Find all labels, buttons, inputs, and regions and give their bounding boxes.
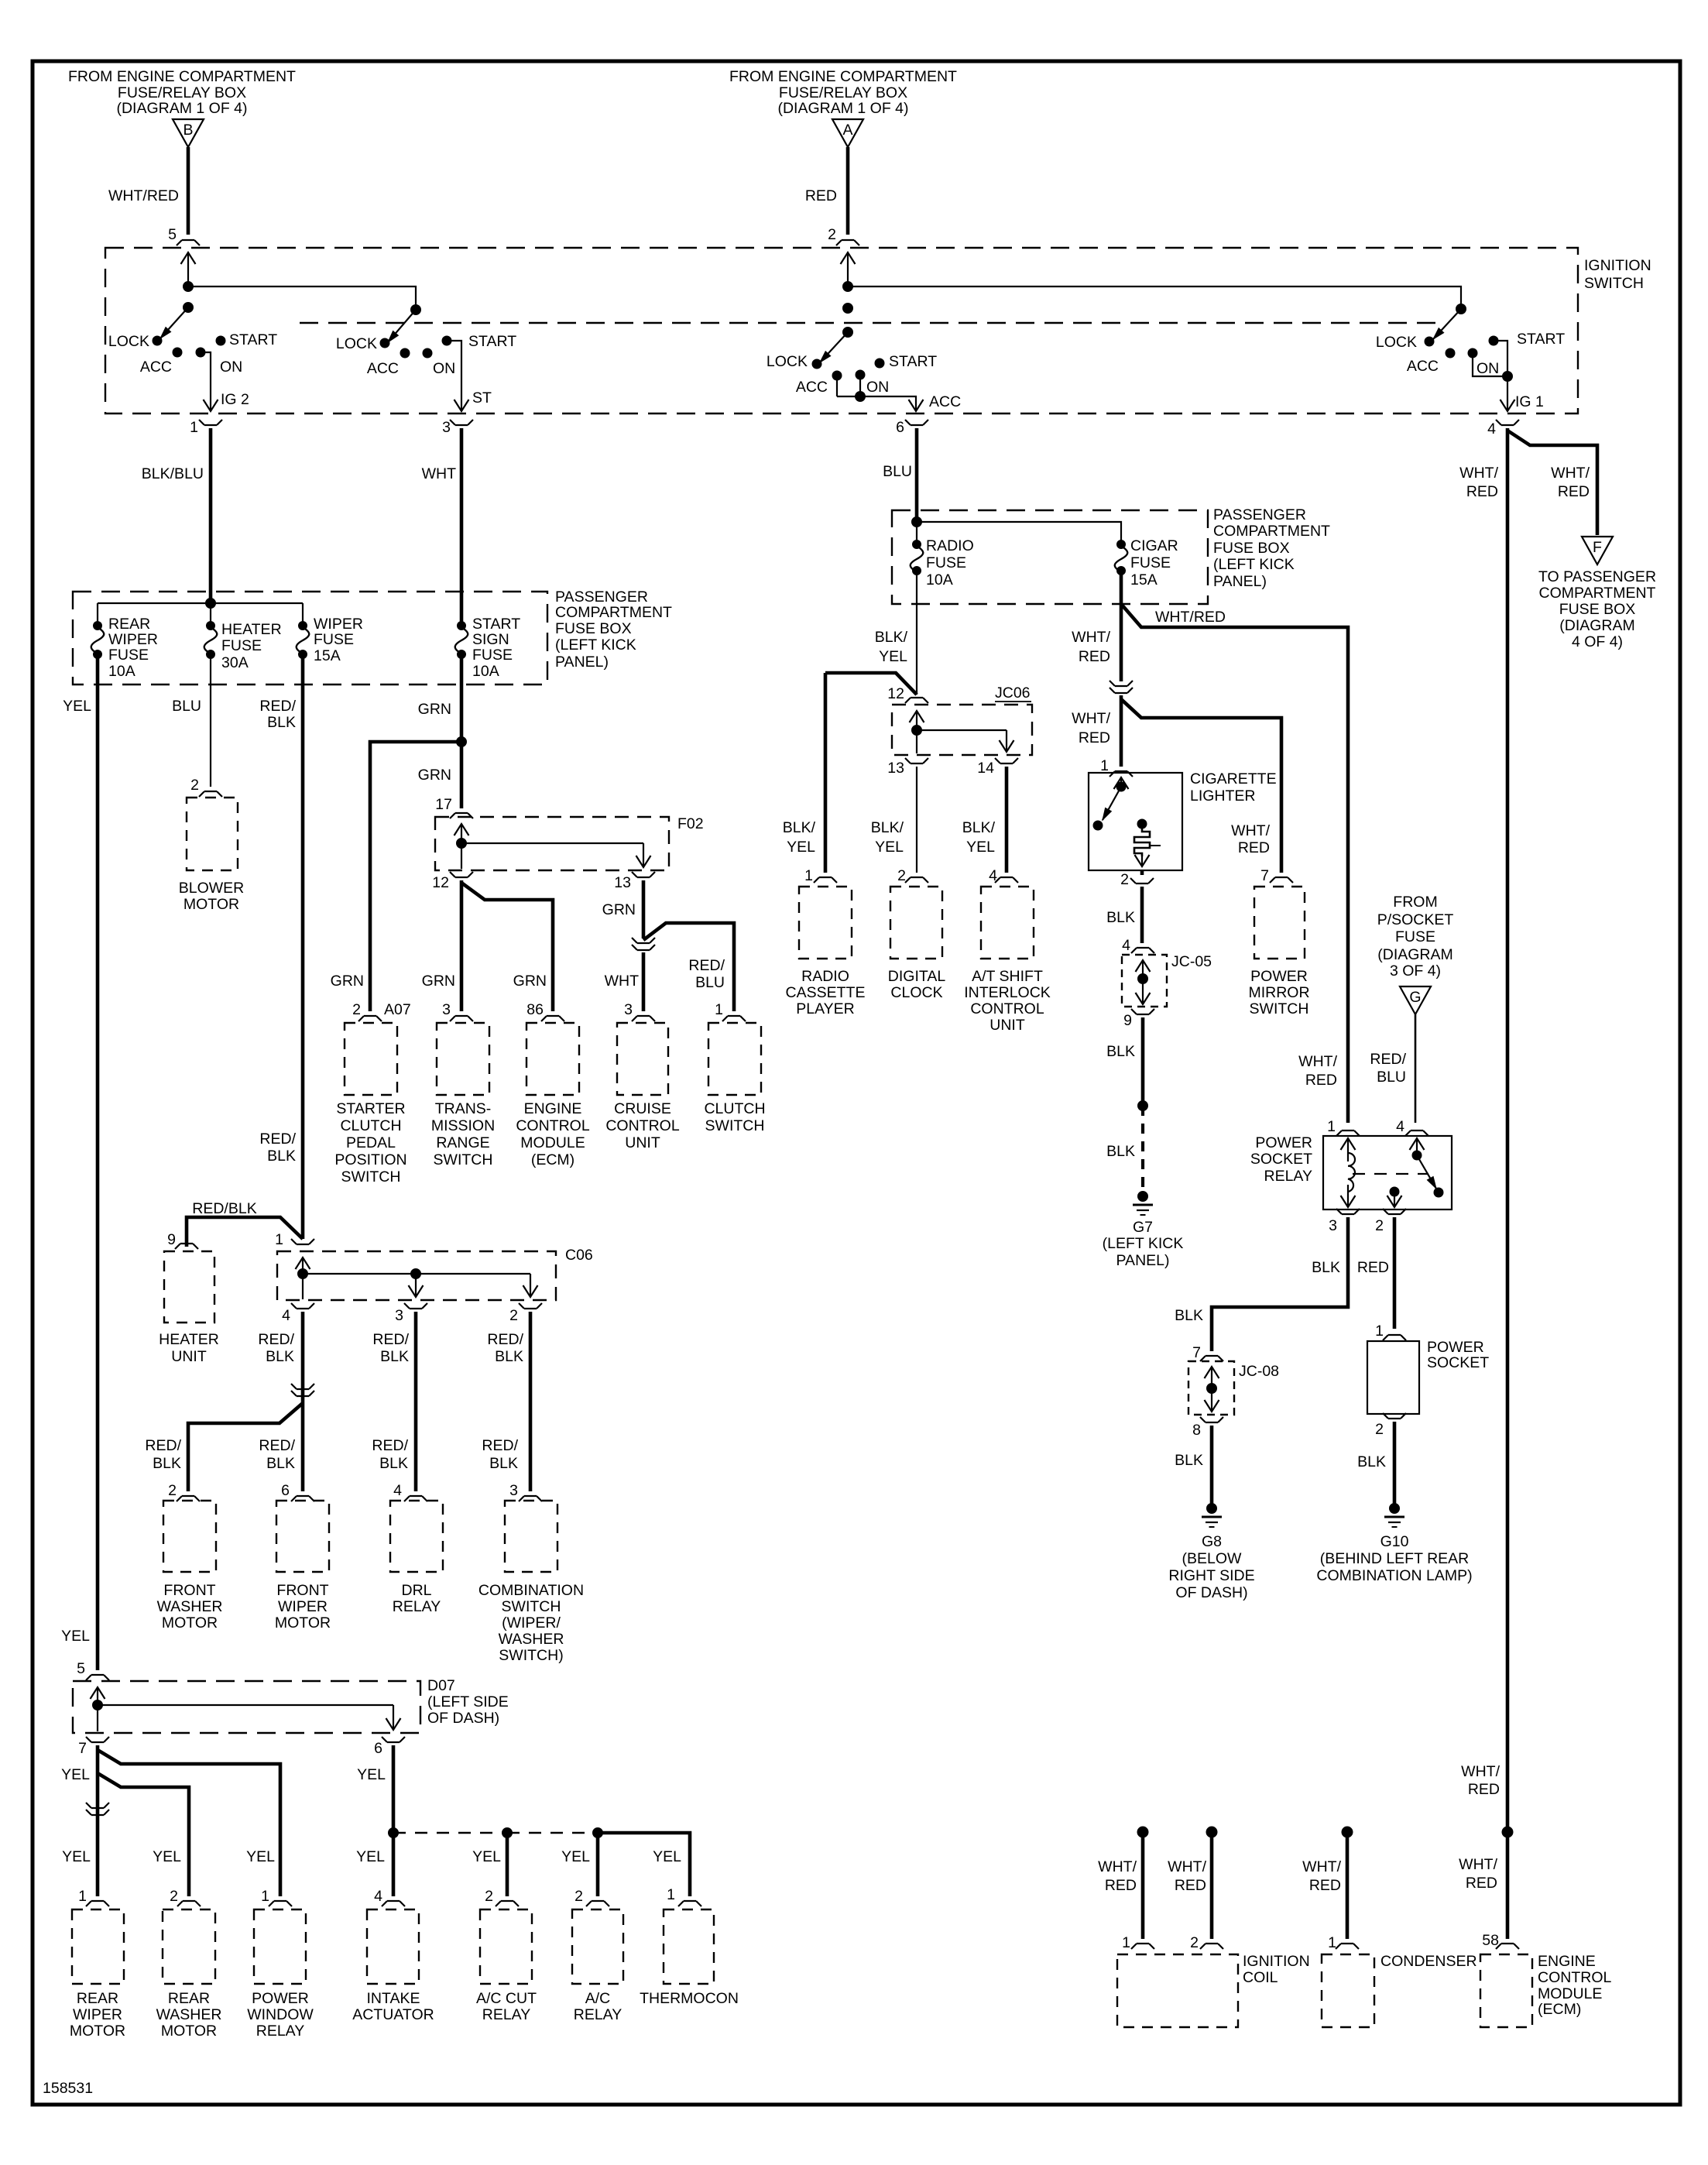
svg-text:(BELOW: (BELOW [1182,1550,1243,1567]
svg-text:RED/: RED/ [259,1131,296,1148]
svg-text:RED: RED [1305,1072,1337,1089]
svg-text:BLK: BLK [1175,1452,1203,1469]
svg-text:SWITCH): SWITCH) [499,1647,563,1664]
svg-text:ENGINE: ENGINE [1538,1953,1596,1970]
svg-text:YEL: YEL [357,1766,386,1783]
svg-text:3: 3 [624,1001,633,1018]
svg-text:BLK: BLK [379,1455,408,1472]
svg-text:POSITION: POSITION [334,1151,406,1168]
svg-text:4: 4 [1396,1118,1404,1135]
svg-text:9: 9 [167,1231,176,1248]
svg-text:RIGHT SIDE: RIGHT SIDE [1168,1567,1254,1584]
svg-text:MIRROR: MIRROR [1248,984,1309,1001]
svg-text:PANEL): PANEL) [1116,1252,1170,1269]
svg-text:RADIO: RADIO [926,537,974,554]
svg-text:STARTER: STARTER [336,1100,405,1117]
svg-text:LOCK: LOCK [108,333,149,350]
svg-text:RED/: RED/ [372,1437,408,1454]
svg-text:WIPER: WIPER [108,631,158,648]
svg-text:OF DASH): OF DASH) [427,1710,499,1727]
svg-text:(DIAGRAM: (DIAGRAM [1559,617,1635,634]
svg-text:13: 13 [887,760,904,777]
svg-text:RED/: RED/ [259,698,296,715]
svg-text:3 OF 4): 3 OF 4) [1390,962,1441,980]
svg-text:WHT/RED: WHT/RED [108,187,179,204]
svg-text:RED: RED [1079,729,1110,746]
svg-text:ON: ON [866,379,889,396]
svg-text:WHT/: WHT/ [1231,822,1270,839]
svg-text:1: 1 [190,419,198,436]
svg-text:FRONT: FRONT [276,1582,328,1599]
svg-text:FROM: FROM [1393,894,1437,911]
svg-text:WHT/: WHT/ [1459,465,1498,482]
svg-text:FUSE/RELAY BOX: FUSE/RELAY BOX [779,84,907,101]
svg-text:WASHER: WASHER [156,2006,222,2023]
svg-text:LOCK: LOCK [767,353,808,370]
svg-text:P/SOCKET: P/SOCKET [1377,911,1454,928]
svg-text:UNIT: UNIT [989,1017,1025,1034]
svg-text:58: 58 [1482,1932,1499,1949]
svg-text:LIGHTER: LIGHTER [1190,787,1256,805]
svg-text:14: 14 [977,760,994,777]
svg-text:2: 2 [1375,1421,1384,1438]
svg-text:13: 13 [614,874,631,891]
svg-text:SWITCH: SWITCH [705,1117,765,1134]
svg-text:BLK: BLK [1106,1143,1135,1160]
svg-text:G8: G8 [1202,1533,1222,1550]
svg-text:FUSE: FUSE [926,554,966,571]
svg-text:1: 1 [275,1231,283,1248]
svg-text:IGNITION: IGNITION [1243,1953,1310,1970]
svg-text:5: 5 [77,1660,85,1677]
svg-text:FUSE BOX: FUSE BOX [555,620,632,637]
svg-text:UNIT: UNIT [171,1348,207,1365]
svg-text:BLK/: BLK/ [875,629,908,646]
svg-text:FUSE: FUSE [221,637,262,654]
svg-text:YEL: YEL [63,698,91,715]
svg-text:A/C: A/C [585,1990,611,2007]
svg-text:CRUISE: CRUISE [614,1100,671,1117]
svg-text:4: 4 [393,1482,402,1499]
svg-text:LOCK: LOCK [336,335,377,352]
svg-text:1: 1 [1328,1934,1336,1951]
svg-text:2: 2 [352,1001,361,1018]
svg-text:JC-05: JC-05 [1171,953,1212,970]
svg-text:POWER: POWER [1255,1134,1312,1151]
svg-text:WHT/: WHT/ [1298,1053,1337,1070]
svg-text:WHT/: WHT/ [1461,1763,1500,1780]
svg-text:JC06: JC06 [995,684,1031,702]
svg-text:10A: 10A [108,663,135,680]
svg-text:YEL: YEL [879,648,907,665]
svg-text:(ECM): (ECM) [1538,2001,1581,2018]
svg-text:ACC: ACC [929,393,961,410]
svg-text:MODULE: MODULE [1538,1985,1602,2002]
svg-text:BLK/: BLK/ [871,819,904,836]
svg-text:FRONT: FRONT [163,1582,215,1599]
svg-text:ACC: ACC [140,359,172,376]
svg-text:YEL: YEL [966,839,995,856]
svg-text:12: 12 [887,685,904,702]
svg-text:CONTROL: CONTROL [516,1117,589,1134]
svg-text:A/C CUT: A/C CUT [476,1990,537,2007]
svg-text:(LEFT KICK: (LEFT KICK [1103,1235,1184,1252]
svg-text:2: 2 [485,1888,493,1905]
svg-text:BLK: BLK [266,1455,295,1472]
svg-text:RELAY: RELAY [393,1598,441,1615]
svg-text:IG 2: IG 2 [221,391,249,408]
svg-text:SWITCH: SWITCH [1584,275,1644,292]
svg-text:9: 9 [1123,1012,1132,1029]
svg-text:REAR: REAR [108,616,150,633]
svg-text:3: 3 [509,1482,518,1499]
svg-text:1: 1 [1122,1934,1130,1951]
svg-text:RED/: RED/ [482,1437,518,1454]
svg-text:INTERLOCK: INTERLOCK [964,984,1051,1001]
svg-text:HEATER: HEATER [221,621,282,638]
svg-text:RED/: RED/ [258,1331,294,1348]
svg-text:BLK: BLK [1175,1307,1203,1324]
svg-text:LOCK: LOCK [1376,334,1417,351]
svg-text:G7: G7 [1133,1219,1153,1236]
svg-text:TRANS-: TRANS- [435,1100,492,1117]
svg-text:JC-08: JC-08 [1239,1363,1279,1380]
svg-text:GRN: GRN [513,973,547,990]
svg-text:TO PASSENGER: TO PASSENGER [1538,568,1656,585]
svg-text:10A: 10A [926,571,953,588]
svg-text:YEL: YEL [787,839,815,856]
svg-text:GRN: GRN [331,973,364,990]
svg-text:ACC: ACC [1407,358,1439,375]
svg-text:2: 2 [574,1888,583,1905]
svg-text:FUSE: FUSE [472,647,513,664]
svg-text:WIPER: WIPER [278,1598,328,1615]
svg-text:6: 6 [374,1740,382,1757]
svg-text:GRN: GRN [418,701,451,718]
svg-text:WHT/: WHT/ [1072,629,1110,646]
svg-text:FUSE/RELAY BOX: FUSE/RELAY BOX [118,84,246,101]
svg-text:BLK/BLU: BLK/BLU [142,465,204,482]
svg-text:BLU: BLU [1377,1069,1406,1086]
svg-text:RELAY: RELAY [256,2023,305,2040]
svg-text:MODULE: MODULE [520,1134,585,1151]
svg-text:MOTOR: MOTOR [162,1614,218,1631]
svg-text:OF DASH): OF DASH) [1175,1584,1247,1601]
svg-text:RED: RED [1238,839,1270,856]
svg-text:7: 7 [1192,1344,1201,1361]
svg-text:YEL: YEL [653,1848,681,1865]
svg-text:1: 1 [1100,757,1109,774]
svg-text:CASSETTE: CASSETTE [786,984,866,1001]
svg-text:RELAY: RELAY [1264,1168,1313,1185]
svg-text:BLK/: BLK/ [962,819,996,836]
svg-text:ON: ON [1476,360,1499,377]
svg-text:FUSE BOX: FUSE BOX [1213,540,1290,557]
svg-text:START: START [229,331,277,348]
svg-text:(DIAGRAM 1 OF 4): (DIAGRAM 1 OF 4) [116,100,247,117]
svg-text:2: 2 [1120,871,1129,888]
svg-text:C06: C06 [565,1247,593,1264]
svg-text:WHT/RED: WHT/RED [1155,609,1226,626]
svg-text:1: 1 [261,1888,269,1905]
svg-text:ON: ON [433,360,455,377]
svg-text:D07: D07 [427,1677,455,1694]
svg-text:POWER: POWER [252,1990,309,2007]
svg-text:WHT/: WHT/ [1459,1856,1497,1873]
svg-text:FROM ENGINE COMPARTMENT: FROM ENGINE COMPARTMENT [729,68,957,85]
svg-text:WASHER: WASHER [499,1631,564,1648]
svg-text:WASHER: WASHER [157,1598,223,1615]
svg-text:CIGARETTE: CIGARETTE [1190,770,1277,787]
svg-text:1: 1 [78,1888,87,1905]
svg-text:F: F [1593,539,1602,556]
svg-text:A: A [842,122,852,139]
svg-text:FUSE: FUSE [314,631,354,648]
svg-text:1: 1 [1375,1323,1384,1340]
svg-text:PANEL): PANEL) [555,654,609,671]
svg-text:PASSENGER: PASSENGER [555,588,648,606]
svg-text:ACTUATOR: ACTUATOR [352,2006,434,2023]
svg-text:PLAYER: PLAYER [796,1000,855,1017]
svg-text:RED/: RED/ [487,1331,523,1348]
svg-text:ACC: ACC [367,360,399,377]
svg-text:COMBINATION: COMBINATION [478,1582,584,1599]
svg-text:BLK: BLK [153,1455,181,1472]
svg-text:RED: RED [1357,1259,1389,1276]
svg-text:FUSE: FUSE [108,647,149,664]
svg-text:(LEFT KICK: (LEFT KICK [1213,556,1295,573]
svg-text:RED: RED [1175,1877,1206,1894]
svg-text:CONTROL: CONTROL [605,1117,679,1134]
svg-text:1: 1 [667,1886,675,1903]
svg-text:WIPER: WIPER [73,2006,122,2023]
svg-text:DIGITAL: DIGITAL [888,968,946,985]
svg-text:COMPARTMENT: COMPARTMENT [555,604,672,621]
svg-text:BLK: BLK [1357,1453,1386,1470]
svg-text:BLK: BLK [266,1348,294,1365]
svg-text:2: 2 [897,867,906,884]
svg-text:6: 6 [896,419,904,436]
svg-text:YEL: YEL [246,1848,275,1865]
svg-text:17: 17 [435,796,452,813]
svg-text:SOCKET: SOCKET [1427,1354,1489,1371]
svg-text:4: 4 [1122,937,1130,954]
svg-text:(WIPER/: (WIPER/ [502,1614,561,1631]
svg-text:ENGINE: ENGINE [524,1100,582,1117]
svg-text:SWITCH: SWITCH [1250,1000,1309,1017]
svg-text:1: 1 [715,1001,723,1018]
svg-text:(DIAGRAM 1 OF 4): (DIAGRAM 1 OF 4) [777,100,908,117]
svg-text:INTAKE: INTAKE [367,1990,420,2007]
svg-text:FUSE BOX: FUSE BOX [1559,601,1636,618]
svg-text:PASSENGER: PASSENGER [1213,506,1306,523]
svg-text:THERMOCON: THERMOCON [640,1990,739,2007]
svg-text:YEL: YEL [153,1848,181,1865]
svg-text:GRN: GRN [602,901,636,918]
svg-text:F02: F02 [677,815,704,832]
svg-text:COMBINATION LAMP): COMBINATION LAMP) [1316,1567,1472,1584]
svg-text:WIPER: WIPER [314,616,363,633]
svg-text:2: 2 [828,226,836,243]
svg-text:FUSE: FUSE [1130,554,1171,571]
svg-text:BLK/: BLK/ [783,819,816,836]
svg-text:A07: A07 [384,1001,411,1018]
svg-text:BLK: BLK [489,1455,518,1472]
svg-text:RANGE: RANGE [436,1134,489,1151]
svg-text:(LEFT SIDE: (LEFT SIDE [427,1693,509,1710]
svg-text:COIL: COIL [1243,1969,1278,1986]
svg-text:BLK: BLK [267,1148,296,1165]
svg-text:MOTOR: MOTOR [183,896,239,913]
svg-text:RED/: RED/ [688,957,725,974]
svg-text:HEATER: HEATER [159,1331,219,1348]
svg-text:REAR: REAR [77,1990,118,2007]
svg-text:CONDENSER: CONDENSER [1380,1953,1477,1970]
svg-text:BLK: BLK [1312,1259,1340,1276]
svg-text:12: 12 [432,874,449,891]
svg-text:RED/BLK: RED/BLK [192,1200,256,1217]
svg-text:2: 2 [1190,1934,1199,1951]
svg-text:MOTOR: MOTOR [275,1614,331,1631]
svg-text:30A: 30A [221,654,249,671]
svg-text:YEL: YEL [356,1848,385,1865]
svg-text:CLUTCH: CLUTCH [704,1100,765,1117]
svg-text:POWER: POWER [1427,1339,1484,1356]
svg-text:IG 1: IG 1 [1515,393,1544,410]
svg-text:WINDOW: WINDOW [247,2006,314,2023]
svg-text:YEL: YEL [561,1848,590,1865]
svg-text:2: 2 [1375,1217,1384,1234]
svg-text:BLK: BLK [495,1348,523,1365]
svg-text:3: 3 [395,1307,403,1324]
svg-text:2: 2 [168,1482,177,1499]
svg-text:RED/: RED/ [1370,1051,1406,1068]
svg-text:2: 2 [509,1307,518,1324]
svg-text:START: START [1517,331,1565,348]
svg-text:1: 1 [804,867,813,884]
svg-text:6: 6 [281,1482,290,1499]
svg-text:START: START [468,333,516,350]
svg-text:RED: RED [1309,1877,1341,1894]
svg-text:PANEL): PANEL) [1213,573,1267,590]
svg-text:WHT: WHT [605,973,639,990]
svg-text:BLU: BLU [883,463,912,480]
svg-text:3: 3 [442,419,451,436]
svg-text:(ECM): (ECM) [531,1151,574,1168]
svg-text:IGNITION: IGNITION [1584,257,1651,274]
svg-text:BLK: BLK [1106,909,1135,926]
svg-text:YEL: YEL [62,1848,91,1865]
svg-text:(BEHIND LEFT REAR: (BEHIND LEFT REAR [1320,1550,1470,1567]
svg-text:(DIAGRAM: (DIAGRAM [1377,946,1453,963]
svg-text:1: 1 [1327,1118,1336,1135]
svg-text:158531: 158531 [43,2080,93,2097]
svg-text:3: 3 [1329,1217,1337,1234]
svg-text:WHT: WHT [422,465,456,482]
svg-text:DRL: DRL [401,1582,431,1599]
svg-text:BLK: BLK [1106,1043,1135,1060]
svg-text:COMPARTMENT: COMPARTMENT [1213,523,1330,540]
svg-text:4: 4 [374,1888,382,1905]
svg-text:START: START [889,353,937,370]
svg-text:WHT/: WHT/ [1551,465,1590,482]
svg-text:RELAY: RELAY [482,2006,531,2023]
svg-text:RADIO: RADIO [801,968,849,985]
svg-text:SWITCH: SWITCH [341,1168,401,1185]
svg-text:(LEFT KICK: (LEFT KICK [555,636,636,654]
svg-text:4: 4 [1487,420,1496,437]
svg-text:FUSE: FUSE [1395,928,1435,945]
svg-text:A/T SHIFT: A/T SHIFT [972,968,1043,985]
svg-text:15A: 15A [314,647,341,664]
svg-text:10A: 10A [472,663,499,680]
svg-text:MISSION: MISSION [431,1117,495,1134]
svg-text:BLK: BLK [267,714,296,731]
svg-text:BLU: BLU [695,974,725,991]
svg-text:YEL: YEL [61,1628,90,1645]
svg-text:START: START [472,616,520,633]
svg-text:CONTROL: CONTROL [1538,1969,1611,1986]
svg-text:3: 3 [442,1001,451,1018]
svg-text:SOCKET: SOCKET [1250,1151,1312,1168]
svg-text:RED/: RED/ [259,1437,295,1454]
svg-text:RED: RED [1466,483,1498,500]
svg-text:UNIT: UNIT [625,1134,660,1151]
svg-text:ON: ON [220,359,242,376]
svg-text:YEL: YEL [61,1766,90,1783]
svg-text:WHT/: WHT/ [1072,710,1110,727]
svg-text:COMPARTMENT: COMPARTMENT [1539,585,1656,602]
svg-text:5: 5 [168,226,177,243]
svg-text:MOTOR: MOTOR [161,2023,217,2040]
svg-text:RELAY: RELAY [574,2006,622,2023]
svg-text:G: G [1409,989,1421,1006]
svg-text:BLOWER: BLOWER [179,880,245,897]
svg-text:2: 2 [170,1888,178,1905]
svg-text:B: B [183,122,193,139]
svg-text:POWER: POWER [1250,968,1308,985]
svg-text:REAR: REAR [168,1990,210,2007]
svg-text:8: 8 [1192,1422,1201,1439]
svg-text:BLK: BLK [380,1348,409,1365]
svg-text:WHT/: WHT/ [1168,1858,1206,1875]
svg-text:RED/: RED/ [372,1331,409,1348]
svg-text:SWITCH: SWITCH [502,1598,561,1615]
svg-text:RED: RED [1468,1781,1500,1798]
svg-text:RED: RED [1558,483,1590,500]
svg-text:BLU: BLU [172,698,201,715]
svg-text:ACC: ACC [796,379,828,396]
svg-text:7: 7 [1260,867,1269,884]
svg-text:YEL: YEL [472,1848,501,1865]
svg-text:GRN: GRN [422,973,455,990]
svg-text:CLUTCH: CLUTCH [340,1117,401,1134]
svg-text:FROM ENGINE COMPARTMENT: FROM ENGINE COMPARTMENT [68,68,296,85]
svg-text:PEDAL: PEDAL [346,1134,396,1151]
svg-text:RED/: RED/ [145,1437,181,1454]
svg-text:GRN: GRN [418,767,451,784]
svg-text:CIGAR: CIGAR [1130,537,1178,554]
svg-text:4: 4 [282,1307,290,1324]
svg-text:CONTROL: CONTROL [970,1000,1044,1017]
svg-text:7: 7 [78,1740,87,1757]
svg-text:86: 86 [526,1001,544,1018]
svg-text:G10: G10 [1380,1533,1409,1550]
svg-text:WHT/: WHT/ [1098,1858,1137,1875]
svg-text:RED: RED [1466,1875,1497,1892]
svg-text:SWITCH: SWITCH [434,1151,493,1168]
svg-text:MOTOR: MOTOR [70,2023,125,2040]
